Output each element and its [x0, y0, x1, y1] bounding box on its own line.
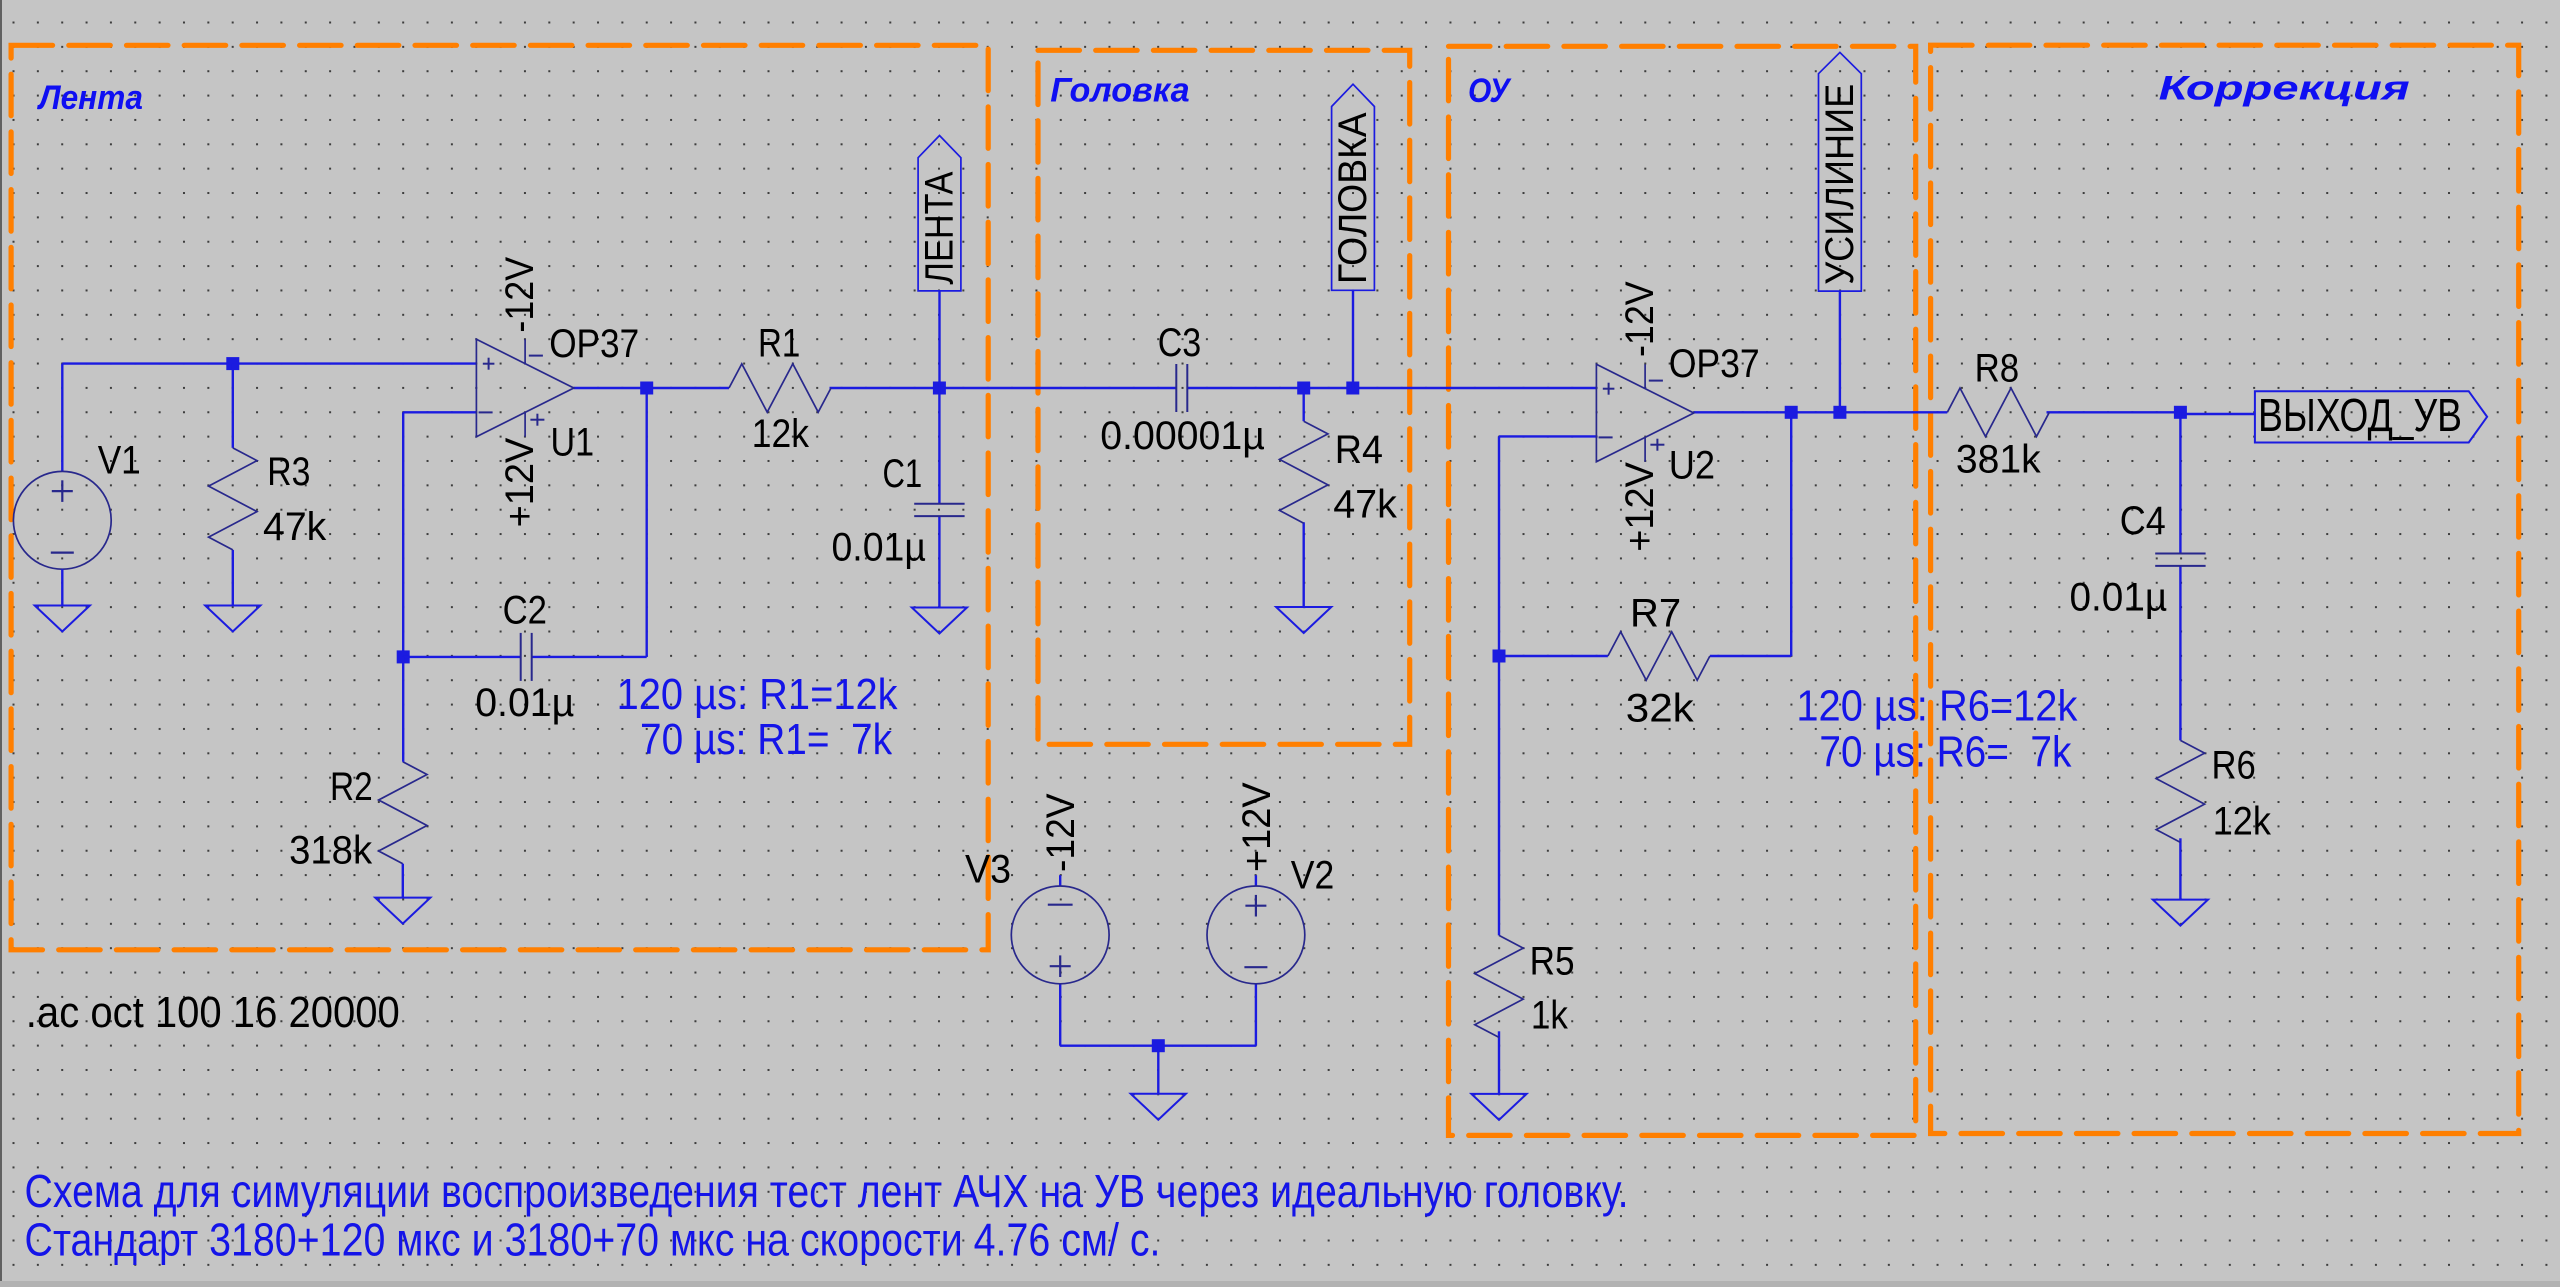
svg-text:47k: 47k: [263, 505, 327, 549]
svg-text:R5: R5: [1530, 940, 1575, 984]
svg-text:+12V: +12V: [1618, 462, 1662, 552]
wire ЛЕНТА flag stem: [938, 291, 940, 388]
wire node I to output flag: [2180, 413, 2255, 415]
node G junction (feedback tap): [1785, 406, 1798, 419]
svg-text:U2: U2: [1669, 444, 1715, 488]
node I junction (C4/ВЫХОД_УВ): [2174, 406, 2187, 419]
wire feedback column x=1499: [1498, 436, 1500, 935]
svg-text:OP37: OP37: [1669, 342, 1760, 386]
wire V1 bottom lead: [61, 569, 63, 605]
resistor R3: [209, 448, 257, 550]
svg-text:V3: V3: [965, 847, 1011, 891]
resistor R8: [1947, 388, 2049, 436]
svg-text:Коррекция: Коррекция: [2159, 69, 2410, 107]
wire R3 top lead: [232, 364, 234, 448]
svg-text:R6: R6: [2212, 743, 2256, 787]
svg-text:12k: 12k: [752, 412, 810, 456]
wire U2 output: [1694, 411, 1948, 413]
resistor R6: [2156, 740, 2204, 842]
wire УСИЛИНИЕ flag stem: [1839, 291, 1841, 412]
wire C4 bottom lead: [2179, 566, 2181, 741]
wire R8 right lead to node I: [2047, 411, 2181, 413]
svg-text:R8: R8: [1975, 347, 2020, 391]
wire R5 bottom lead: [1498, 1031, 1500, 1094]
svg-text:120 µs: R6=12k: 120 µs: R6=12k: [1796, 681, 2078, 730]
svg-text:12k: 12k: [2213, 799, 2272, 843]
svg-text:1k: 1k: [1531, 994, 1569, 1038]
node B junction (C2 left): [397, 650, 410, 663]
node H junction (УСИЛИНИЕ): [1833, 406, 1846, 419]
wire V2 bottom lead: [1255, 984, 1257, 1046]
resistor R5: [1475, 935, 1523, 1037]
box OU (ОУ) dashed outline: [1449, 46, 1916, 1135]
wire C3 right plate to U2 +input: [1187, 387, 1597, 389]
svg-text:ОУ: ОУ: [1468, 72, 1512, 110]
wire V3-V2 ground bus: [1060, 1044, 1256, 1046]
box Korrekcia (Коррекция) dashed outline: [1931, 45, 2519, 1133]
capacitor C2: [520, 633, 522, 681]
svg-text:318k: 318k: [289, 829, 373, 873]
wire supply ground stub: [1157, 1046, 1159, 1094]
svg-text:ГОЛОВКА: ГОЛОВКА: [1331, 112, 1375, 284]
svg-text:-12V: -12V: [498, 257, 542, 333]
node F junction (R7 left): [1493, 650, 1506, 663]
wire ГОЛОВКА flag stem: [1352, 290, 1354, 388]
wire U2 -input left: [1499, 435, 1597, 437]
node D junction (R4 top): [1297, 382, 1310, 395]
wire V1 top to node A: [61, 364, 63, 472]
ground под V1: [35, 606, 90, 632]
svg-text:.ac oct 100 16 20000: .ac oct 100 16 20000: [26, 988, 400, 1037]
ground под C1: [912, 608, 967, 634]
wire C1 bottom lead: [938, 516, 940, 607]
svg-text:ЛЕНТА: ЛЕНТА: [918, 171, 962, 284]
wire R2 top lead: [402, 657, 404, 762]
voltage source V1: [13, 471, 111, 569]
voltage source V2 (+12V): [1207, 886, 1305, 984]
node A junction: [226, 357, 239, 370]
svg-text:32k: 32k: [1626, 687, 1695, 731]
net flag ЛЕНТА: [918, 136, 961, 291]
node E junction (ГОЛОВКА): [1346, 382, 1359, 395]
svg-text:U1: U1: [551, 421, 595, 465]
wire node A to U1 +input: [233, 362, 477, 364]
svg-text:0.01µ: 0.01µ: [2070, 575, 2168, 619]
svg-text:ВЫХОД_УВ: ВЫХОД_УВ: [2258, 389, 2462, 441]
svg-text:УСИЛИНИЕ: УСИЛИНИЕ: [1818, 84, 1862, 285]
ground под R3: [205, 606, 260, 632]
ground под R4: [1276, 607, 1331, 633]
wire node C to C3 left plate: [939, 387, 1176, 389]
svg-text:Стандарт 3180+120 мкс и 3180+7: Стандарт 3180+120 мкс и 3180+70 мкс на с…: [25, 1214, 1161, 1266]
wire V3 bottom lead: [1059, 984, 1061, 1046]
svg-text:0.01µ: 0.01µ: [475, 681, 574, 725]
wire C2 left lead: [403, 656, 521, 658]
ground под R5: [1471, 1094, 1526, 1120]
wire U1 output: [574, 387, 729, 389]
svg-text:0.00001µ: 0.00001µ: [1100, 414, 1265, 458]
svg-text:0.01µ: 0.01µ: [832, 525, 926, 569]
svg-text:-12V: -12V: [1618, 281, 1662, 357]
wire R4 bottom lead: [1302, 522, 1304, 607]
box Lenta (Лента) dashed outline: [11, 45, 988, 950]
wire R2 bottom lead: [402, 864, 404, 898]
svg-text:C2: C2: [503, 588, 547, 632]
svg-text:70 µs: R1= 7k: 70 µs: R1= 7k: [640, 715, 893, 764]
net flag УСИЛИНИЕ: [1819, 52, 1862, 291]
capacitor C3: [1175, 364, 1177, 412]
ground supplies V2 V3: [1131, 1094, 1186, 1120]
svg-text:C3: C3: [1158, 321, 1202, 365]
op-amp U1: [476, 339, 573, 436]
resistor R7: [1608, 632, 1710, 680]
svg-text:R1: R1: [758, 322, 800, 366]
node U1-out junction: [640, 382, 653, 395]
wire C1 top lead: [938, 388, 940, 504]
svg-text:-12V: -12V: [1039, 793, 1083, 872]
svg-text:C1: C1: [883, 452, 923, 496]
wire R6 bottom lead: [2179, 838, 2181, 899]
svg-text:+12V: +12V: [1235, 782, 1279, 872]
wire R1 right lead to node C: [830, 387, 940, 389]
svg-text:Схема для симуляции воспроизве: Схема для симуляции воспроизведения тест…: [25, 1165, 1629, 1217]
ground под R2: [375, 898, 430, 924]
node C junction (C1/ЛЕНТА): [933, 382, 946, 395]
ground под R6: [2153, 900, 2208, 926]
capacitor C4: [2155, 553, 2205, 555]
wire R4 top lead: [1302, 388, 1304, 421]
wire V3 top pin stub: [1059, 875, 1061, 886]
op-amp U2: [1596, 364, 1693, 461]
wire V2 top pin stub: [1255, 875, 1257, 886]
svg-text:OP37: OP37: [549, 322, 639, 366]
wire U1 -input to feedback: [403, 411, 476, 413]
svg-text:R7: R7: [1630, 591, 1681, 635]
wire C4 top lead: [2179, 412, 2181, 553]
svg-text:V2: V2: [1291, 854, 1335, 898]
svg-text:120 µs: R1=12k: 120 µs: R1=12k: [617, 670, 899, 719]
svg-text:R4: R4: [1335, 428, 1383, 472]
svg-text:R2: R2: [330, 765, 373, 809]
svg-text:381k: 381k: [1956, 437, 2042, 481]
box Golovka (Головка) dashed outline: [1038, 50, 1410, 744]
capacitor C1: [914, 503, 964, 505]
wire C2 right lead up to U1 output: [532, 656, 647, 658]
wire R3 bottom lead: [232, 550, 234, 606]
svg-text:Лента: Лента: [36, 79, 143, 117]
wire R7 right lead and riser to U2 output: [1710, 655, 1791, 657]
svg-text:V1: V1: [98, 439, 141, 483]
net flag ГОЛОВКА: [1332, 84, 1375, 290]
voltage source V3 (-12V): [1011, 886, 1109, 984]
svg-text:70 µs: R6= 7k: 70 µs: R6= 7k: [1819, 727, 2072, 776]
resistor R2: [379, 762, 427, 864]
node J junction (supply ground): [1152, 1039, 1165, 1052]
svg-text:+12V: +12V: [498, 437, 542, 527]
svg-text:Головка: Головка: [1050, 71, 1190, 109]
resistor R1: [729, 364, 831, 412]
svg-text:C4: C4: [2120, 499, 2166, 543]
svg-text:R3: R3: [267, 450, 310, 494]
svg-text:47k: 47k: [1333, 483, 1398, 527]
wire R7 left lead: [1499, 655, 1608, 657]
output port ВЫХОД_УВ: [2255, 391, 2487, 442]
resistor R4: [1280, 421, 1328, 523]
